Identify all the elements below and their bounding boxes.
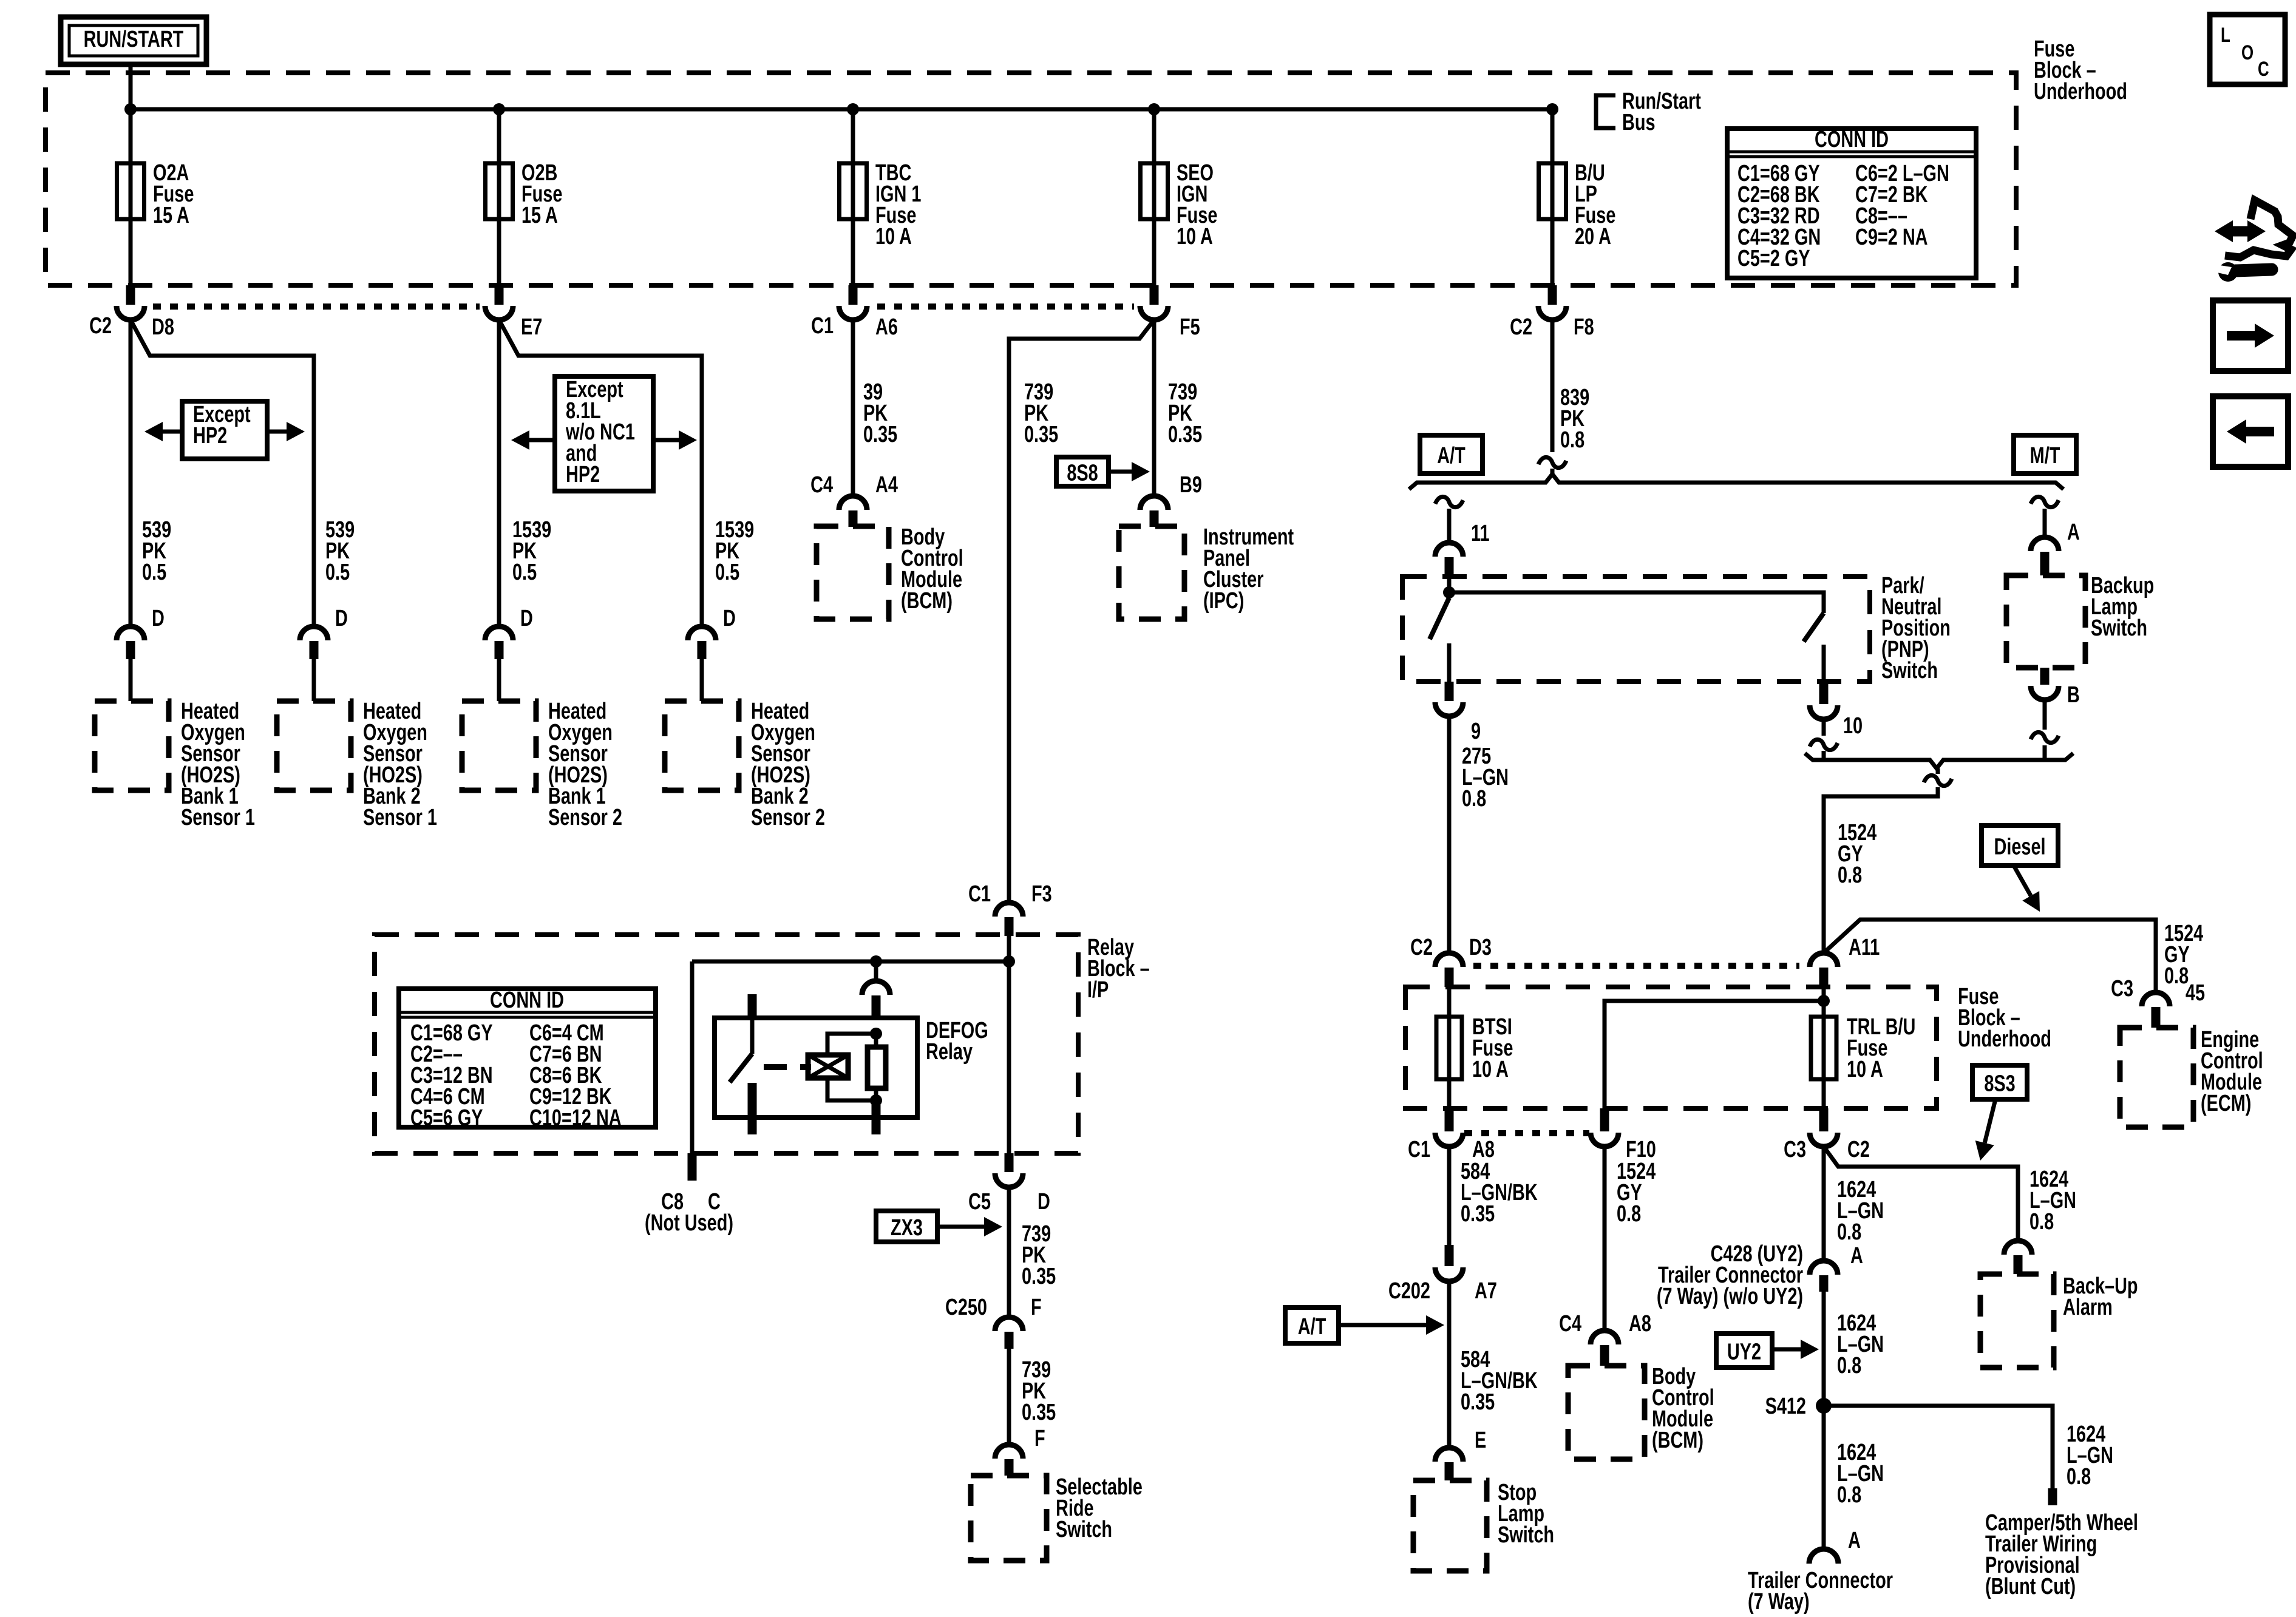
node pnp junction (1443, 586, 1455, 598)
svg-text:0.35: 0.35 (1024, 421, 1058, 447)
connector A trailer connector (1809, 1527, 1861, 1564)
wire label 1624 L-GN 0.8 (main3) (1837, 1439, 1884, 1508)
node bus junction 3 (847, 103, 859, 115)
svg-text:15 A: 15 A (153, 202, 189, 228)
break symbol A/T branch (1435, 497, 1463, 507)
label engine control module (ECM) (2201, 1026, 2263, 1116)
label Except 8.1L box (555, 376, 653, 491)
connector F5 (1140, 285, 1200, 340)
svg-text:D: D (335, 605, 348, 631)
connector D (HO2S B1S1) (117, 605, 165, 701)
svg-text:9: 9 (1471, 718, 1481, 744)
icon arrow right box (2213, 300, 2288, 371)
arrow except-81L right (653, 430, 697, 450)
node coil top (870, 1028, 882, 1040)
node relay junction left (870, 955, 882, 968)
label body control module (BCM) 1 (901, 524, 963, 614)
wire bus to O2B fuse (497, 109, 501, 163)
fuse BTSI 10A (1436, 1014, 1513, 1082)
svg-text:0.8: 0.8 (1838, 862, 1862, 888)
svg-text:F: F (1031, 1294, 1042, 1320)
svg-text:B: B (2067, 682, 2080, 708)
svg-text:10 A: 10 A (1472, 1056, 1509, 1082)
node relay junction right (1003, 955, 1015, 968)
break symbol M/T branch (2031, 497, 2059, 507)
break symbol below 10 (1810, 739, 1838, 750)
svg-text:A: A (2067, 519, 2080, 545)
svg-text:C2: C2 (89, 313, 112, 339)
wire 10 break to brace (1822, 751, 1826, 758)
svg-text:10 A: 10 A (1177, 223, 1213, 249)
svg-text:A6: A6 (875, 314, 898, 340)
wire merge to corner (1824, 768, 1938, 953)
wire C202 down (1447, 1281, 1452, 1448)
svg-text:(ECM): (ECM) (2201, 1090, 2251, 1116)
svg-text:Sensor 1: Sensor 1 (181, 804, 255, 830)
svg-text:0.8: 0.8 (2164, 963, 2189, 989)
svg-text:ZX3: ZX3 (891, 1215, 923, 1241)
arrow ZX3 to wire (937, 1217, 1002, 1236)
wire B to break (2043, 700, 2047, 730)
wire trl to f10 branch (1605, 1001, 1824, 1108)
fuse TBC IGN 1 10A (840, 160, 922, 249)
svg-text:D3: D3 (1469, 934, 1492, 960)
svg-text:Switch: Switch (2091, 615, 2147, 641)
svg-text:Sensor 2: Sensor 2 (751, 804, 825, 830)
park neutral position switch box (1402, 577, 1870, 682)
label HO2S bank2 sensor2 (751, 698, 825, 830)
connector C4 A4 (810, 472, 898, 527)
label Fuse Block - Underhood (2034, 36, 2127, 104)
arrow except-hp2 left (144, 422, 182, 441)
fuse block underhood 2 dashed box (1405, 987, 1937, 1108)
label A/T box 2 (1285, 1307, 1339, 1343)
label Relay Block - I/P (1087, 934, 1150, 1003)
svg-text:0.8: 0.8 (1617, 1201, 1641, 1227)
svg-text:A/T: A/T (1298, 1314, 1326, 1340)
conn id table relay block (399, 987, 656, 1131)
svg-text:A8: A8 (1629, 1310, 1651, 1337)
wire label 739 PK 0.35 (relay) (1024, 379, 1058, 447)
wire 10 to break (1822, 719, 1826, 736)
wire pnp exit 9 (1447, 643, 1452, 682)
wire label 1539 PK 0.5 (2) (715, 517, 754, 585)
label body control module (BCM) 2 (1652, 1363, 1714, 1453)
connector C4 A8 bcm (1559, 1310, 1651, 1366)
connector C5 D (968, 1153, 1050, 1215)
wire label 275 L-GN 0.8 (1462, 743, 1509, 812)
wire bus to SEO fuse (1152, 109, 1156, 163)
svg-text:C1: C1 (968, 881, 991, 907)
arrow UY2 to wire (1772, 1340, 1819, 1359)
svg-text:Relay: Relay (926, 1039, 973, 1065)
connector A backup lamp (2031, 519, 2080, 575)
svg-text:M/T: M/T (2030, 442, 2060, 469)
wire label 1524 GY 0.8 (f10) (1617, 1158, 1656, 1227)
label M/T box (2014, 435, 2076, 473)
label HO2S bank1 sensor1 (181, 698, 255, 830)
fuse block 2 dotted line top (1473, 963, 1799, 969)
wire label 1524 GY 0.8 (ecm) (2164, 920, 2203, 989)
heated oxygen sensor bank2 sensor2 box (665, 701, 739, 790)
svg-text:C202: C202 (1388, 1278, 1430, 1304)
fuse block underhood dashed box (46, 73, 2016, 285)
svg-text:Switch: Switch (1056, 1516, 1112, 1542)
label stop lamp switch (1498, 1479, 1554, 1548)
arrow except-81L left (511, 430, 555, 450)
connector B backup lamp (2031, 668, 2080, 708)
svg-text:0.35: 0.35 (1022, 1263, 1056, 1289)
label Diesel box (1982, 825, 2058, 866)
svg-text:A11: A11 (1849, 934, 1880, 960)
wire label 1524 GY 0.8 (merge) (1838, 819, 1877, 888)
run/start bus bracket (1596, 88, 1701, 135)
svg-text:D: D (1038, 1188, 1050, 1215)
svg-text:A/T: A/T (1437, 442, 1466, 469)
wire label 584 L-GN/BK 0.35 (1) (1461, 1158, 1538, 1227)
label DEFOG Relay (926, 1017, 988, 1065)
wire pnp internal horizontal (1449, 592, 1824, 613)
wire O2B fuse to E7 (497, 219, 501, 285)
defog relay switch pin top (748, 994, 757, 1054)
label trailer connector 7 way (1748, 1567, 1893, 1615)
wire pnp exit 10 (1822, 645, 1826, 682)
svg-text:8S8: 8S8 (1067, 460, 1098, 486)
svg-text:C2: C2 (1410, 934, 1433, 960)
label RUN/START (61, 17, 206, 64)
defog relay coil pin bottom (872, 1105, 881, 1134)
defog relay coil (808, 1055, 848, 1078)
svg-text:0.35: 0.35 (1461, 1201, 1495, 1227)
svg-text:HP2: HP2 (566, 461, 600, 487)
icon hood adjust (2215, 200, 2293, 282)
label instrument panel cluster (IPC) (1203, 524, 1294, 614)
svg-text:(7 Way) (w/o UY2): (7 Way) (w/o UY2) (1657, 1283, 1803, 1309)
svg-text:Alarm: Alarm (2063, 1294, 2113, 1320)
brace A/T M/T split (1409, 474, 2063, 489)
svg-text:CONN ID: CONN ID (490, 987, 564, 1013)
svg-text:F: F (1034, 1425, 1045, 1451)
svg-text:B9: B9 (1180, 472, 1202, 498)
wire label 1539 PK 0.5 (1) (512, 517, 551, 585)
wire B/U LP fuse to C2 F8 (1550, 219, 1555, 285)
svg-text:C1: C1 (811, 313, 834, 339)
wire label 1624 L-GN 0.8 (main1) (1837, 1176, 1884, 1245)
wire trl fuse down (1822, 1079, 1826, 1108)
wire O2A fuse to C2 D8 (129, 219, 133, 285)
svg-text:D: D (520, 605, 533, 631)
connector defog relay pin (862, 981, 890, 1018)
wire label 739 PK 0.35 (zx3) (1022, 1221, 1056, 1289)
wire C2 D8 down to HO2S B1S1 (129, 320, 133, 626)
svg-text:D: D (152, 605, 165, 631)
defog relay switch pin bottom (748, 1083, 757, 1134)
svg-text:C5: C5 (968, 1188, 991, 1215)
connector C1 A6 (811, 285, 898, 340)
svg-text:A: A (1848, 1527, 1861, 1553)
wire C2 F8 down (1550, 320, 1555, 452)
wire S412 branch camper (1824, 1406, 2057, 1505)
connector A11 (1810, 934, 1880, 987)
connector 10 (1810, 682, 1863, 739)
wire SEO fuse to F5 (1152, 219, 1156, 285)
connector D (HO2S B2S1) (300, 605, 348, 701)
heated oxygen sensor bank1 sensor2 box (462, 701, 536, 790)
connector F selectable ride (995, 1425, 1045, 1476)
svg-text:Switch: Switch (1881, 657, 1938, 683)
arrow diesel to wire (2014, 866, 2040, 912)
wire F5 branch to relay block (1009, 320, 1154, 903)
label 8S8 box (1056, 457, 1109, 486)
selectable ride switch box (971, 1476, 1047, 1561)
wire C3 C2 branch to alarm (1824, 1147, 2018, 1241)
wire bus to TBC fuse (851, 109, 855, 163)
svg-text:0.35: 0.35 (863, 421, 897, 447)
wire A/T branch to pin 11 (1447, 509, 1452, 543)
label camper/5th wheel (1985, 1510, 2138, 1599)
fuse block connector dotted line (153, 303, 1134, 310)
svg-text:Diesel: Diesel (1994, 834, 2045, 860)
svg-text:A4: A4 (875, 472, 898, 498)
svg-text:Underhood: Underhood (2034, 78, 2127, 104)
connector C250 F (945, 1294, 1042, 1349)
wire label 1624 L-GN 0.8 (camper) (2067, 1421, 2113, 1490)
svg-text:10 A: 10 A (875, 223, 912, 249)
svg-text:C250: C250 (945, 1294, 987, 1320)
label Fuse Block - Underhood 2 (1958, 983, 2051, 1052)
wire M/T to A (2043, 509, 2047, 537)
wire relay feed through (1007, 936, 1011, 1162)
wire break to brace (1550, 469, 1555, 475)
node trl junction (1818, 995, 1830, 1007)
pnp switch blade right (1804, 613, 1824, 642)
connector C3 45 ecm (2111, 975, 2205, 1028)
back-up alarm box (1980, 1274, 2054, 1368)
svg-text:(BCM): (BCM) (901, 588, 953, 614)
svg-text:0.8: 0.8 (2029, 1209, 2054, 1235)
connector B9 (1140, 472, 1202, 527)
svg-text:O: O (2241, 42, 2254, 64)
wire label 839 PK 0.8 (1560, 384, 1589, 453)
svg-text:(Not Used): (Not Used) (645, 1210, 733, 1236)
svg-text:C4: C4 (810, 472, 833, 498)
brace merge (1805, 753, 2073, 768)
defog relay box (715, 1018, 917, 1117)
heated oxygen sensor bank1 sensor1 box (95, 701, 169, 790)
connector C1 A8 (1408, 1108, 1495, 1162)
svg-text:(7 Way): (7 Way) (1748, 1588, 1810, 1615)
svg-text:UY2: UY2 (1727, 1339, 1761, 1365)
svg-text:A7: A7 (1475, 1278, 1497, 1304)
svg-text:0.5: 0.5 (325, 559, 350, 585)
svg-text:F8: F8 (1574, 314, 1594, 340)
svg-text:0.8: 0.8 (1837, 1482, 1861, 1508)
connector C2 F8 (1510, 285, 1594, 340)
svg-text:D8: D8 (152, 314, 174, 340)
wire C5 to C250 (1007, 1187, 1011, 1317)
connector C1 F3 (968, 881, 1052, 936)
wire C3 C2 down (1822, 1147, 1826, 1261)
wire C2 D8 branch to HO2S B2S1 (131, 320, 314, 626)
svg-text:F3: F3 (1031, 881, 1052, 907)
label HO2S bank1 sensor2 (548, 698, 622, 830)
wire defog coil drop (874, 961, 878, 982)
connector C2 D8 (89, 285, 174, 340)
wire RUN/START to bus (129, 64, 133, 109)
break symbol below merge (1924, 775, 1952, 785)
svg-text:(BCM): (BCM) (1652, 1427, 1703, 1453)
wire C1 A6 to C4 A4 (851, 320, 855, 496)
break symbol above split (1538, 457, 1566, 467)
fuse O2B 15A (486, 160, 563, 228)
svg-text:Bus: Bus (1622, 109, 1656, 135)
wire btsi to C1 A8 (1447, 1079, 1452, 1108)
connector C2 D3 (1410, 934, 1492, 987)
svg-text:Switch: Switch (1498, 1522, 1554, 1548)
svg-text:0.35: 0.35 (1022, 1399, 1056, 1425)
svg-text:20 A: 20 A (1575, 223, 1611, 249)
svg-text:C1: C1 (1408, 1136, 1430, 1162)
arrow except-hp2 right (267, 422, 305, 441)
node bus junction 5 (1546, 103, 1558, 115)
svg-text:0.35: 0.35 (1168, 421, 1202, 447)
arrow A/T to wire (1339, 1315, 1444, 1335)
svg-text:0.35: 0.35 (1461, 1389, 1495, 1415)
node coil bottom (870, 1094, 882, 1107)
svg-text:0.5: 0.5 (142, 559, 166, 585)
wire coil bottom link (827, 1078, 876, 1100)
label Except HP2 box (182, 401, 267, 459)
wire diesel branch to ECM (1824, 920, 2156, 992)
svg-text:C4: C4 (1559, 1310, 1581, 1337)
wire coil top link (827, 1034, 876, 1055)
wire label 739 PK 0.35 (ipc) (1168, 379, 1202, 447)
arrow 8S8 to wire (1109, 462, 1150, 481)
fuse TRL B/U 10A (1811, 1014, 1915, 1082)
wire S412 down (1822, 1406, 1826, 1549)
label backup lamp switch (2091, 572, 2154, 641)
svg-text:E7: E7 (521, 314, 542, 340)
wire F5 down to B9 (1152, 320, 1156, 496)
label selectable ride switch (1056, 1474, 1143, 1542)
wire label 39 PK 0.35 (863, 379, 897, 447)
wire F10 down (1603, 1147, 1607, 1331)
svg-text:C2: C2 (1510, 314, 1532, 340)
fuse block 2 dotted line bottom (1464, 1130, 1589, 1136)
icon LOC box (2210, 15, 2285, 84)
wire label 539 PK 0.5 (2) (325, 517, 355, 585)
wire label 584 L-GN/BK 0.35 (2) (1461, 1346, 1538, 1415)
svg-text:10: 10 (1843, 713, 1863, 739)
connector C202 A7 (1388, 1245, 1497, 1304)
label back-up alarm (2063, 1273, 2138, 1320)
wire C1 A8 down (1447, 1147, 1452, 1246)
label UY2 box (1716, 1334, 1772, 1368)
connector E stop lamp (1435, 1427, 1486, 1480)
node bus junction 2 (493, 103, 505, 115)
svg-text:E: E (1475, 1427, 1486, 1453)
svg-text:C5=6 GY: C5=6 GY (410, 1105, 483, 1131)
svg-text:HP2: HP2 (193, 422, 227, 449)
svg-text:A: A (1850, 1242, 1863, 1269)
pnp switch blade left (1430, 598, 1449, 639)
connector D (HO2S B2S2) (688, 605, 736, 701)
label C428 trailer connector (1657, 1241, 1803, 1309)
connector A trailer 7way inline (1810, 1242, 1863, 1292)
svg-text:0.8: 0.8 (1560, 427, 1584, 453)
svg-text:C3: C3 (1784, 1136, 1806, 1162)
backup lamp switch box (2006, 575, 2085, 668)
wire label 1624 L-GN 0.8 (main2) (1837, 1310, 1884, 1378)
svg-text:C5=2 GY: C5=2 GY (1737, 245, 1810, 271)
conn id table underhood (1727, 126, 1976, 278)
wire E7 branch to HO2S B2S2 (499, 320, 702, 626)
svg-text:F5: F5 (1180, 314, 1200, 340)
wire label 1624 L-GN 0.8 (alarm) (2029, 1166, 2076, 1235)
svg-text:0.8: 0.8 (1837, 1219, 1861, 1245)
connector F10 (1591, 1108, 1656, 1162)
fuse SEO IGN 10A (1141, 160, 1218, 249)
wire bus to O2A fuse (129, 109, 133, 163)
wire relay C8 drop (690, 961, 695, 1153)
connector C8 (not used) (645, 1153, 733, 1236)
body control module box 1 (817, 526, 889, 619)
connector 11 (1435, 520, 1490, 577)
stop lamp switch box (1413, 1480, 1487, 1571)
wire pnp internal top (1447, 577, 1452, 592)
svg-text:C3: C3 (2111, 975, 2133, 1002)
run/start bus wire (131, 107, 1552, 112)
icon arrow left box (2213, 396, 2288, 467)
svg-text:CONN ID: CONN ID (1815, 126, 1889, 152)
wire label 539 PK 0.5 (1) (142, 517, 171, 585)
wire E7 down to HO2S B1S2 (497, 320, 501, 626)
svg-text:(Blunt Cut): (Blunt Cut) (1985, 1573, 2076, 1599)
svg-text:11: 11 (1471, 520, 1490, 546)
wire A to S412 (1822, 1292, 1826, 1406)
node bus junction 4 (1148, 103, 1160, 115)
svg-text:8S3: 8S3 (1984, 1071, 2015, 1097)
wire label 739 PK 0.35 (switch) (1022, 1357, 1056, 1425)
connector D (HO2S B1S2) (485, 605, 533, 701)
connector E7 (485, 285, 542, 340)
svg-text:RUN/START: RUN/START (84, 26, 184, 52)
svg-text:10 A: 10 A (1847, 1056, 1883, 1082)
svg-text:C10=12 NA: C10=12 NA (529, 1105, 622, 1131)
svg-text:C2: C2 (1847, 1136, 1870, 1162)
label A/T box (1420, 435, 1483, 473)
heated oxygen sensor bank2 sensor1 box (277, 701, 351, 790)
wire trl feed (1822, 987, 1826, 1017)
defog relay actuate dashes (764, 1064, 811, 1070)
svg-text:C9=2 NA: C9=2 NA (1855, 224, 1928, 250)
label 8S3 box (1972, 1065, 2027, 1099)
break symbol below B (2031, 732, 2059, 742)
wire C250 to switch (1007, 1349, 1011, 1445)
defog relay resistor (868, 1034, 886, 1100)
connector A back-up alarm (2004, 1241, 2032, 1274)
defog relay switch blade (730, 1054, 752, 1082)
svg-text:0.8: 0.8 (2067, 1463, 2091, 1490)
connector C3 C2 (1784, 1108, 1870, 1162)
label park/neutral position switch (1881, 572, 1951, 683)
wire relay horizontal (692, 960, 1009, 964)
svg-text:0.8: 0.8 (1462, 785, 1486, 812)
svg-text:0.5: 0.5 (715, 559, 739, 585)
svg-text:Underhood: Underhood (1958, 1026, 2051, 1052)
label ZX3 box (876, 1211, 937, 1242)
fuse O2A 15A (117, 160, 194, 228)
